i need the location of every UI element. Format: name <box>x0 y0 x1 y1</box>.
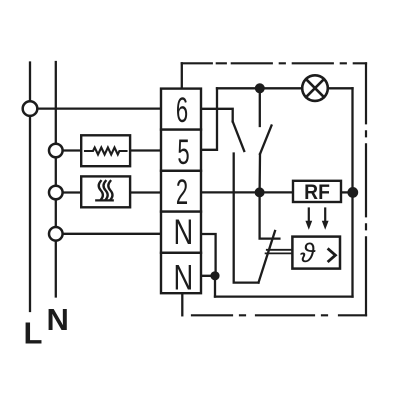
wire: S2 bottom terminal down to thermostat contact pivot <box>234 154 259 283</box>
terminal N upper <box>161 212 201 253</box>
arrow: RF action arrow 2 <box>322 209 329 230</box>
wire: N terminals riser to bottom return <box>214 276 216 297</box>
switch contact S1 (lamp/RF line): fixed stub <box>259 88 261 126</box>
terminal 5 <box>161 130 201 171</box>
heater element (floor heating) <box>81 176 130 207</box>
arrow: RF action arrow 1 <box>305 209 312 230</box>
node: circle tap on N rail (to terminal N) <box>49 227 63 241</box>
mechanical link (double line) blade to thermostat box <box>266 250 293 254</box>
switch contact S1: blade <box>260 126 272 155</box>
wire: resistor to terminal 5 <box>130 149 161 151</box>
switch contact S2: blade <box>233 122 245 152</box>
terminal 6 <box>161 89 201 130</box>
terminal 2 <box>161 171 201 212</box>
wire: lamp line (junction to lamp) <box>217 87 302 89</box>
wire: heater to terminal 2 <box>130 191 161 193</box>
svg-text:N: N <box>47 302 69 337</box>
boundary: device outline chain line (top edge) <box>182 62 366 64</box>
wire: stub terminal N to boundary <box>181 293 183 315</box>
wire: L tap to terminal 6 <box>30 107 161 109</box>
resistor R (external load) <box>81 135 130 166</box>
svg-text:RF: RF <box>304 181 330 204</box>
wire: stub terminal 6 to boundary <box>181 63 183 88</box>
wire: N tap 3 to terminal N <box>56 233 161 235</box>
svg-text:6: 6 <box>176 92 188 130</box>
wire: right N return rail <box>351 88 353 296</box>
svg-text:N: N <box>173 213 193 252</box>
wire: terminal 5 riser to lamp line <box>161 88 217 150</box>
node: circle tap on L rail <box>23 101 38 116</box>
node: junction dot on RF line <box>255 187 265 197</box>
node: junction dot N terminals <box>210 271 219 280</box>
wire: RF box to right rail <box>341 191 353 193</box>
wire: lamp to right rail <box>327 87 353 89</box>
node: junction dot on lamp line <box>255 83 265 93</box>
receiver RF box <box>293 181 341 204</box>
terminal labels <box>173 92 193 297</box>
wire: terminal 6 to switch S2 <box>201 109 233 122</box>
node: circle tap on N rail (to resistor) <box>49 144 63 158</box>
terminal N lower <box>161 253 201 293</box>
node: circle tap on N rail (to heater) <box>49 186 63 200</box>
wire: bottom N return <box>215 295 353 297</box>
wire: S1 to RF line junction <box>258 154 261 192</box>
wire: N tap 1 to resistor <box>56 149 81 151</box>
boundary: device outline chain line (right edge) <box>365 63 367 315</box>
wire: terminal 2 to RF box <box>161 191 293 193</box>
thermostat contact: blade (from pivot past fixed contact) <box>259 231 276 283</box>
thermostat contact: fixed contact L-stub from RF junction <box>260 192 280 238</box>
wire: N supply rail <box>55 62 57 297</box>
svg-text:N: N <box>173 258 193 297</box>
thermostat box U1 (theta >) <box>292 237 340 269</box>
terminal block <box>161 89 201 294</box>
lamp E1 (circle with X) <box>302 75 328 101</box>
boundary: device outline chain line (bottom edge) <box>182 314 366 316</box>
wire: L supply rail <box>29 63 31 312</box>
svg-text:2: 2 <box>176 174 188 212</box>
svg-text:5: 5 <box>177 134 189 172</box>
svg-text:ϑ: ϑ <box>300 238 316 268</box>
wire: N tap 2 to heater <box>56 191 81 193</box>
wire: lower terminal N to junction <box>201 275 215 277</box>
wire: upper terminal N to junction <box>201 234 216 276</box>
svg-text:L: L <box>24 316 43 351</box>
node: junction dot RF line / right rail <box>347 187 358 198</box>
